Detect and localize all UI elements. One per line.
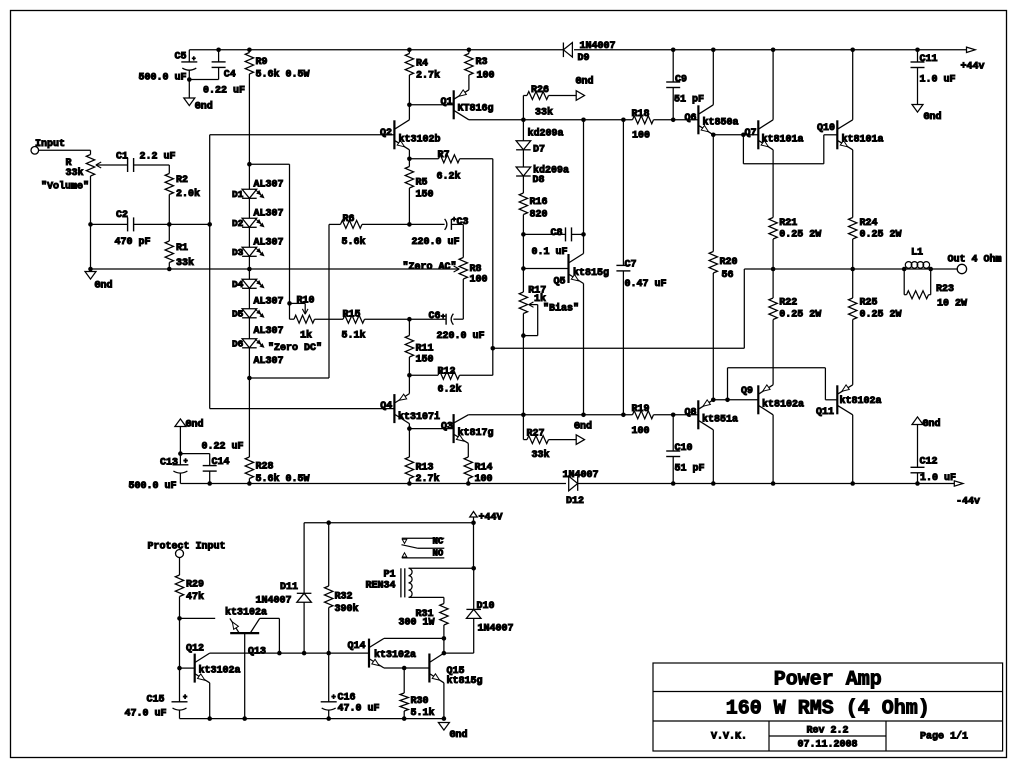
junction Q5 collector column / rail [581, 118, 586, 123]
junction L1 left [902, 267, 907, 272]
resistor R29 47k [175, 558, 204, 619]
svg-text:Q7: Q7 [744, 128, 756, 139]
svg-text:Gnd: Gnd [924, 111, 942, 123]
ground symbol (input) [85, 269, 113, 292]
junction C4 top rail [216, 48, 221, 53]
capacitor C1 2.2 uF [116, 151, 176, 173]
svg-text:+: + [184, 458, 188, 466]
wire Q5 base [523, 268, 568, 270]
capacitor C3 220.0 uF [409, 217, 468, 248]
wire +44V column to relay [473, 523, 475, 569]
svg-text:+44v: +44v [961, 62, 985, 73]
svg-text:Q1: Q1 [440, 97, 452, 108]
resistor R7 6.2k [409, 150, 492, 183]
resistor R4 2.7k [405, 50, 440, 105]
svg-text:R19: R19 [632, 404, 650, 415]
svg-text:33k: 33k [176, 257, 194, 269]
junction Q14 collector / R31 [442, 636, 447, 641]
wire input to volume pot [39, 150, 91, 154]
junction Q10 collector rail [850, 48, 855, 53]
svg-text:R18: R18 [632, 109, 650, 120]
junction relay coil node [471, 566, 476, 571]
svg-text:AL307: AL307 [254, 209, 284, 220]
svg-text:100: 100 [477, 71, 495, 82]
diode D7 kd209a [516, 127, 563, 155]
junction pot/C2 [88, 222, 93, 227]
svg-text:Q3: Q3 [441, 422, 453, 433]
svg-text:5.6k 0.5W: 5.6k 0.5W [256, 473, 310, 485]
resistor R13 2.7k [405, 429, 439, 485]
junction C13/C14 [178, 451, 183, 456]
junction Q5 base node [521, 266, 526, 271]
junction protect +44V node [471, 520, 476, 525]
svg-text:5.6k: 5.6k [342, 236, 366, 248]
svg-text:R25: R25 [860, 298, 878, 309]
svg-text:D9: D9 [578, 53, 590, 64]
svg-text:R29: R29 [186, 579, 204, 590]
transistor Q6 kt850a [684, 50, 738, 135]
transistor Q3 kt817g [441, 414, 494, 457]
junction R32 bottom [326, 651, 331, 656]
svg-text:AL307: AL307 [254, 180, 284, 191]
resistor R16 820 [519, 175, 547, 234]
resistor R32 390k [325, 523, 359, 653]
resistor R14 100 [464, 457, 492, 485]
title block frame [653, 663, 1003, 751]
ground symbol (C12) [912, 417, 941, 430]
transistor Q10 kt8101a [817, 50, 884, 150]
svg-text:R12: R12 [438, 367, 456, 378]
wire D7-D8 [522, 149, 524, 167]
svg-text:0.25 2W: 0.25 2W [860, 309, 902, 320]
junction R17 column / rail [521, 413, 526, 418]
svg-text:"Zero DC": "Zero DC" [268, 342, 322, 354]
ground symbol (C13) [175, 419, 204, 431]
svg-text:Q2: Q2 [380, 128, 392, 139]
svg-text:C10: C10 [675, 443, 693, 454]
svg-text:D12: D12 [566, 496, 584, 507]
junction C7 column / rail [621, 118, 626, 123]
svg-text:33k: 33k [535, 107, 553, 119]
svg-text:0.25 2W: 0.25 2W [779, 230, 821, 241]
svg-text:+: + [332, 694, 336, 702]
svg-text:D6: D6 [232, 339, 244, 350]
svg-text:R28: R28 [256, 461, 274, 472]
title text 07.11.2008 [797, 740, 857, 751]
junction Q8 collector rail [711, 481, 716, 486]
junction Q8 emitter node [711, 398, 716, 403]
capacitor C5 500.0 uF [139, 50, 198, 84]
svg-text:AL307: AL307 [254, 356, 284, 367]
diode D10 1N4007 [466, 568, 513, 653]
svg-text:-44v: -44v [956, 497, 980, 508]
svg-text:100: 100 [632, 426, 650, 437]
LED D5 AL307 [232, 309, 284, 338]
svg-text:R21: R21 [779, 218, 797, 229]
wire LED-bottom riser [328, 224, 330, 378]
wire LED top to R10 riser [249, 164, 289, 303]
svg-text:470 pF: 470 pF [115, 237, 151, 248]
svg-text:820: 820 [530, 210, 548, 221]
wire input stage box [210, 135, 395, 409]
svg-text:C12: C12 [920, 457, 938, 468]
svg-text:AL307: AL307 [254, 297, 284, 308]
wire protect bottom [180, 718, 444, 720]
svg-text:R1: R1 [176, 243, 188, 254]
svg-text:C5: C5 [175, 51, 187, 62]
svg-text:"Zero AC": "Zero AC" [403, 261, 457, 273]
transistor Q13 kt3102a [225, 607, 279, 719]
resistor R18 100 [632, 109, 654, 141]
svg-text:33k: 33k [66, 167, 84, 179]
transistor Q8 kt851a [684, 400, 738, 484]
ground symbol (C11) [912, 105, 942, 124]
svg-text:R4: R4 [416, 59, 428, 70]
svg-text:Q5: Q5 [554, 277, 566, 288]
svg-text:1.0 uF: 1.0 uF [920, 75, 956, 86]
transistor Q2 kt3102b [380, 105, 441, 159]
junction pot bottom [88, 267, 93, 272]
LED D6 AL307 [232, 339, 284, 368]
svg-text:2.0k: 2.0k [176, 188, 200, 200]
svg-text:220.0 uF: 220.0 uF [412, 237, 460, 248]
junction Q13 collector node [277, 651, 282, 656]
svg-text:Q12: Q12 [186, 644, 204, 655]
svg-text:+: + [183, 694, 187, 702]
relay P1 REN34 coil [366, 568, 474, 597]
junction R13 bottom rail [407, 481, 412, 486]
svg-text:0.22 uF: 0.22 uF [202, 442, 244, 453]
junction Q15 collector node [442, 651, 447, 656]
diode D9 1N4007 [563, 41, 615, 64]
svg-text:Gnd: Gnd [195, 101, 213, 113]
svg-text:47.0 uF: 47.0 uF [338, 703, 380, 714]
ground symbol (C5/C4) [184, 80, 213, 113]
svg-text:+: + [441, 314, 445, 322]
capacitor C10 51 pF [666, 415, 704, 484]
svg-text:300 1W: 300 1W [399, 617, 435, 628]
svg-text:C2: C2 [116, 210, 128, 221]
svg-text:Q8: Q8 [684, 408, 696, 419]
svg-text:kt815g: kt815g [573, 267, 609, 279]
wire R29 column down [179, 618, 181, 668]
junction C16 bottom [326, 716, 331, 721]
diode D8 kd209a [516, 165, 569, 187]
LED D2 AL307 [232, 209, 284, 230]
capacitor C8 0.1 uF [523, 227, 583, 257]
wire R31 column [443, 597, 445, 603]
svg-text:D4: D4 [232, 279, 244, 290]
svg-text:"Bias": "Bias" [543, 303, 579, 315]
resistor R1 33k [165, 224, 194, 269]
svg-text:500.0 uF: 500.0 uF [129, 481, 177, 492]
svg-text:Q11: Q11 [816, 407, 834, 418]
resistor R19 100 [632, 404, 654, 437]
svg-text:NC: NC [433, 537, 444, 547]
svg-text:D3: D3 [232, 247, 244, 258]
svg-text:47k: 47k [186, 591, 204, 603]
wire -44v rail (right of D12) [578, 483, 955, 485]
resistor R2 2.0k [165, 174, 200, 225]
wire R10 to R15 [315, 318, 344, 320]
svg-text:R26: R26 [531, 85, 549, 96]
junction R5/R6/C3 node [407, 222, 412, 227]
wire D7 chain top [522, 120, 524, 141]
resistor R22 0.25 2W [769, 269, 821, 385]
junction Q15 emitter bottom [442, 716, 447, 721]
svg-text:R20: R20 [720, 257, 738, 268]
svg-text:Gnd: Gnd [186, 419, 204, 431]
potentiometer R 33k Volume [41, 155, 128, 270]
junction L1 right [928, 267, 933, 272]
svg-text:Input: Input [35, 139, 65, 150]
junction R28 bottom rail [247, 481, 252, 486]
wire +44v top rail (right of D9) [574, 49, 967, 51]
svg-text:Rev 2.2: Rev 2.2 [806, 726, 848, 737]
svg-text:1N4007: 1N4007 [563, 470, 599, 481]
junction LED chain mid (ground) [247, 267, 252, 272]
junction R3 top rail [467, 48, 472, 53]
LED D4 AL307 [232, 279, 284, 308]
junction R24/R25 output node [850, 267, 855, 272]
svg-text:500.0 uF: 500.0 uF [139, 73, 187, 84]
title text Page 1/1 [920, 731, 968, 743]
junction D7 column / rail [521, 118, 526, 123]
potentiometer R17 1k Bias [519, 285, 579, 335]
junction C14 bottom rail [207, 481, 212, 486]
junction R32 top [326, 520, 331, 525]
svg-text:D8: D8 [533, 175, 545, 186]
wire Q9/Q11 base tie [728, 368, 838, 400]
svg-text:C8: C8 [551, 228, 563, 239]
svg-text:KT816g: KT816g [458, 104, 494, 115]
resistor R5 150 [405, 159, 433, 225]
wire lower bias rail right part [654, 414, 699, 416]
svg-text:Q6: Q6 [684, 113, 696, 124]
junction Q6 collector rail [711, 48, 716, 53]
junction LED chain top [247, 162, 252, 167]
svg-text:1N4007: 1N4007 [478, 624, 514, 635]
wire L1 to out terminal [931, 268, 958, 270]
svg-text:07.11.2008: 07.11.2008 [797, 740, 857, 751]
junction R11/R12/Q4 node [407, 373, 412, 378]
junction R30 top [402, 666, 407, 671]
capacitor C2 470 pF [91, 210, 210, 248]
svg-text:kt8101a: kt8101a [762, 134, 804, 146]
power arrow +44v [961, 47, 985, 73]
svg-text:C3: C3 [457, 217, 469, 228]
svg-text:R9: R9 [256, 57, 268, 68]
svg-text:C1: C1 [116, 151, 128, 162]
svg-text:C6: C6 [429, 311, 441, 322]
svg-text:0.47 uF: 0.47 uF [625, 279, 667, 290]
svg-text:Out 4 Ohm: Out 4 Ohm [948, 254, 1002, 266]
svg-text:kt817g: kt817g [458, 427, 494, 439]
junction R4/Q2/Q1 node [407, 103, 412, 108]
svg-text:33k: 33k [532, 449, 550, 461]
svg-text:2.2 uF: 2.2 uF [140, 151, 176, 162]
resistor R21 0.25 2W [769, 150, 821, 269]
junction C11 top rail [915, 48, 920, 53]
wire Q8 emitter to Q9 base [713, 399, 758, 401]
capacitor C14 0.22 uF [202, 442, 244, 484]
resistor R3 100 [465, 50, 495, 90]
capacitor C7 0.47 uF [616, 120, 666, 415]
svg-text:1N4007: 1N4007 [256, 595, 292, 606]
wire output rail [744, 268, 904, 270]
wire Q5 collector column [583, 120, 585, 254]
svg-text:kt815g: kt815g [447, 675, 483, 687]
wire Q6 emitter to Q7 base [713, 134, 758, 136]
wire Q12 base [180, 667, 195, 669]
relay contact NC [402, 537, 445, 547]
svg-text:R22: R22 [779, 298, 797, 309]
relay contact NO [402, 549, 445, 559]
inductor L1 [904, 248, 931, 269]
capacitor C13 500.0 uF [129, 427, 189, 493]
svg-text:Q13: Q13 [248, 647, 266, 658]
output terminal Out 4 Ohm [948, 254, 1002, 274]
diode D11 1N4007 [256, 523, 312, 653]
capacitor C15 47.0 uF [125, 668, 188, 719]
svg-text:kt850a: kt850a [703, 116, 739, 128]
svg-text:6.2k: 6.2k [437, 171, 461, 183]
wire Q2 base [210, 134, 395, 136]
net flag Gnd (R27) [574, 421, 592, 445]
svg-text:L1: L1 [911, 248, 923, 259]
svg-text:R8: R8 [470, 264, 482, 275]
svg-text:51 pF: 51 pF [675, 464, 705, 475]
junction R9 top rail [247, 48, 252, 53]
transistor Q11 kt8102a [816, 385, 882, 484]
net flag Gnd (R26) [576, 76, 594, 101]
svg-text:R13: R13 [416, 462, 434, 473]
svg-text:C16: C16 [338, 693, 356, 704]
svg-text:"Volume": "Volume" [41, 180, 89, 192]
junction R17 wiper tie [521, 333, 526, 338]
transistor Q9 kt8102a [741, 385, 804, 484]
transistor Q1 KT816g [440, 90, 493, 120]
svg-text:R10: R10 [297, 296, 315, 307]
svg-text:REN34: REN34 [366, 581, 396, 592]
wire Q7/Q10 base tie [743, 135, 837, 164]
capacitor C6 220.0 uF [409, 311, 484, 342]
svg-text:C9: C9 [675, 75, 687, 86]
potentiometer R8 100 Zero AC [403, 258, 488, 320]
svg-text:R27: R27 [527, 429, 545, 440]
junction C8 left node [521, 232, 526, 237]
resistor R25 0.25 2W [849, 269, 902, 385]
svg-text:Gnd: Gnd [450, 729, 468, 741]
transistor Q12 kt3102a [186, 644, 241, 719]
svg-text:1.0 uF: 1.0 uF [920, 473, 956, 484]
svg-text:2.7k: 2.7k [416, 70, 440, 82]
wire Q2 collector to Q1 base [409, 104, 453, 106]
svg-text:AL307: AL307 [254, 238, 284, 249]
svg-text:1N4007: 1N4007 [580, 41, 616, 52]
wire R17 to lower rail [522, 336, 524, 415]
junction C9 column / rail [671, 118, 676, 123]
protect input terminal [148, 541, 226, 557]
svg-text:150: 150 [416, 190, 434, 201]
svg-text:D10: D10 [477, 601, 495, 612]
svg-text:AL307: AL307 [254, 326, 284, 337]
junction base tie riser top [741, 133, 746, 138]
title text Rev 2.2 [806, 726, 848, 737]
wire feedback column [492, 159, 494, 375]
svg-text:C4: C4 [224, 70, 236, 81]
svg-text:Q10: Q10 [817, 123, 835, 134]
resistor R26 33k [523, 85, 576, 120]
wire protect latch node [210, 652, 369, 654]
wire Q4 collector to Q3 base [409, 428, 453, 430]
svg-text:10 2W: 10 2W [937, 299, 967, 310]
wire upper bias rail right part [654, 119, 699, 121]
svg-text:kt3102a: kt3102a [374, 649, 416, 661]
svg-text:0.25 2W: 0.25 2W [779, 309, 821, 320]
svg-text:0.22 uF: 0.22 uF [203, 86, 245, 97]
resistor R11 150 [405, 319, 433, 375]
input terminal [31, 139, 65, 154]
svg-text:C15: C15 [147, 694, 165, 705]
svg-text:150: 150 [416, 355, 434, 366]
wire C5-C4 bottom [189, 79, 218, 81]
junction Q7 collector rail [771, 48, 776, 53]
ground symbol (protect) [438, 723, 467, 742]
junction C7 column / rail3 [621, 413, 626, 418]
svg-text:kt8102a: kt8102a [762, 399, 804, 411]
resistor R15 5.1k [342, 310, 410, 342]
junction R4 top rail [407, 48, 412, 53]
svg-text:5.1k: 5.1k [342, 330, 366, 342]
svg-text:kt8101a: kt8101a [842, 134, 884, 146]
junction R10 top [287, 301, 292, 306]
svg-text:C13: C13 [160, 457, 178, 468]
wire upper bias rail left part [469, 119, 633, 121]
junction C9 top rail [671, 48, 676, 53]
resistor R23 10 2W [904, 269, 967, 310]
resistor R6 5.6k [329, 214, 409, 248]
svg-text:Gnd: Gnd [95, 280, 113, 292]
title text Power Amp [774, 669, 882, 692]
wire R29 node to Q13 emitter [180, 617, 216, 619]
power arrow -44v [954, 481, 980, 508]
svg-text:D2: D2 [232, 218, 244, 229]
LED D1 AL307 [232, 180, 284, 201]
svg-text:Gnd: Gnd [923, 418, 941, 430]
resistor R20 56 [709, 135, 737, 400]
svg-text:D5: D5 [232, 309, 244, 320]
junction Q11 collector rail [850, 481, 855, 486]
capacitor C9 51 pF [666, 50, 704, 120]
wire protect +44V feed [304, 522, 473, 524]
junction Q4/R13/Q3 node [407, 426, 412, 431]
svg-text:kt3107i: kt3107i [398, 411, 440, 423]
wire -44v rail (left of D12) [180, 483, 566, 485]
transistor Q5 kt815g [554, 254, 610, 415]
junction base tie riser bottom [725, 398, 730, 403]
potentiometer R10 1k Zero DC [268, 296, 322, 355]
svg-text:6.2k: 6.2k [438, 383, 462, 395]
svg-text:0.1 uF: 0.1 uF [532, 247, 568, 258]
transistor Q4 kt3107i [380, 375, 440, 428]
svg-text:R2: R2 [176, 175, 188, 186]
svg-text:R11: R11 [416, 344, 434, 355]
wire C3 to R8 [462, 224, 464, 257]
svg-text:100: 100 [470, 275, 488, 286]
svg-text:47.0 uF: 47.0 uF [125, 709, 167, 720]
junction LED chain bottom [247, 376, 252, 381]
